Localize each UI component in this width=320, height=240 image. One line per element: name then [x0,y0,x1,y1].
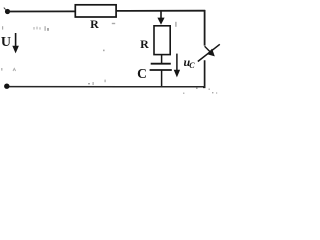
switch S blade [198,44,220,61]
label u_C [184,55,196,70]
voltage arrow U [12,33,19,53]
capacitor C top plate [151,63,171,65]
node A (top-left input terminal) [4,8,10,14]
wire: parallel resistor to capacitor C [161,55,163,64]
resistor R (parallel branch, vertical box) [154,26,170,55]
current arrow i into parallel branch [157,12,164,25]
wire: switch to bottom-right corner [203,60,205,87]
switch S closing-direction arrow [205,46,215,56]
node B (bottom-left input terminal) [4,84,9,89]
svg-text:C: C [189,61,195,70]
capacitor C bottom plate [150,69,172,71]
svg-text:R: R [90,17,99,31]
svg-text:U: U [1,35,11,50]
wire: top-right corner down to switch [204,10,206,46]
svg-text:C: C [137,66,147,81]
resistor R (series, horizontal box) [75,5,116,17]
bottom bus wire [6,86,205,88]
voltage arrow u_C (across capacitor) [174,54,180,78]
wire: node A to series resistor R [7,10,75,12]
wire: capacitor C to bottom bus [161,71,163,87]
wire: series resistor R to top-right corner [116,10,205,12]
svg-text:R: R [140,37,149,51]
